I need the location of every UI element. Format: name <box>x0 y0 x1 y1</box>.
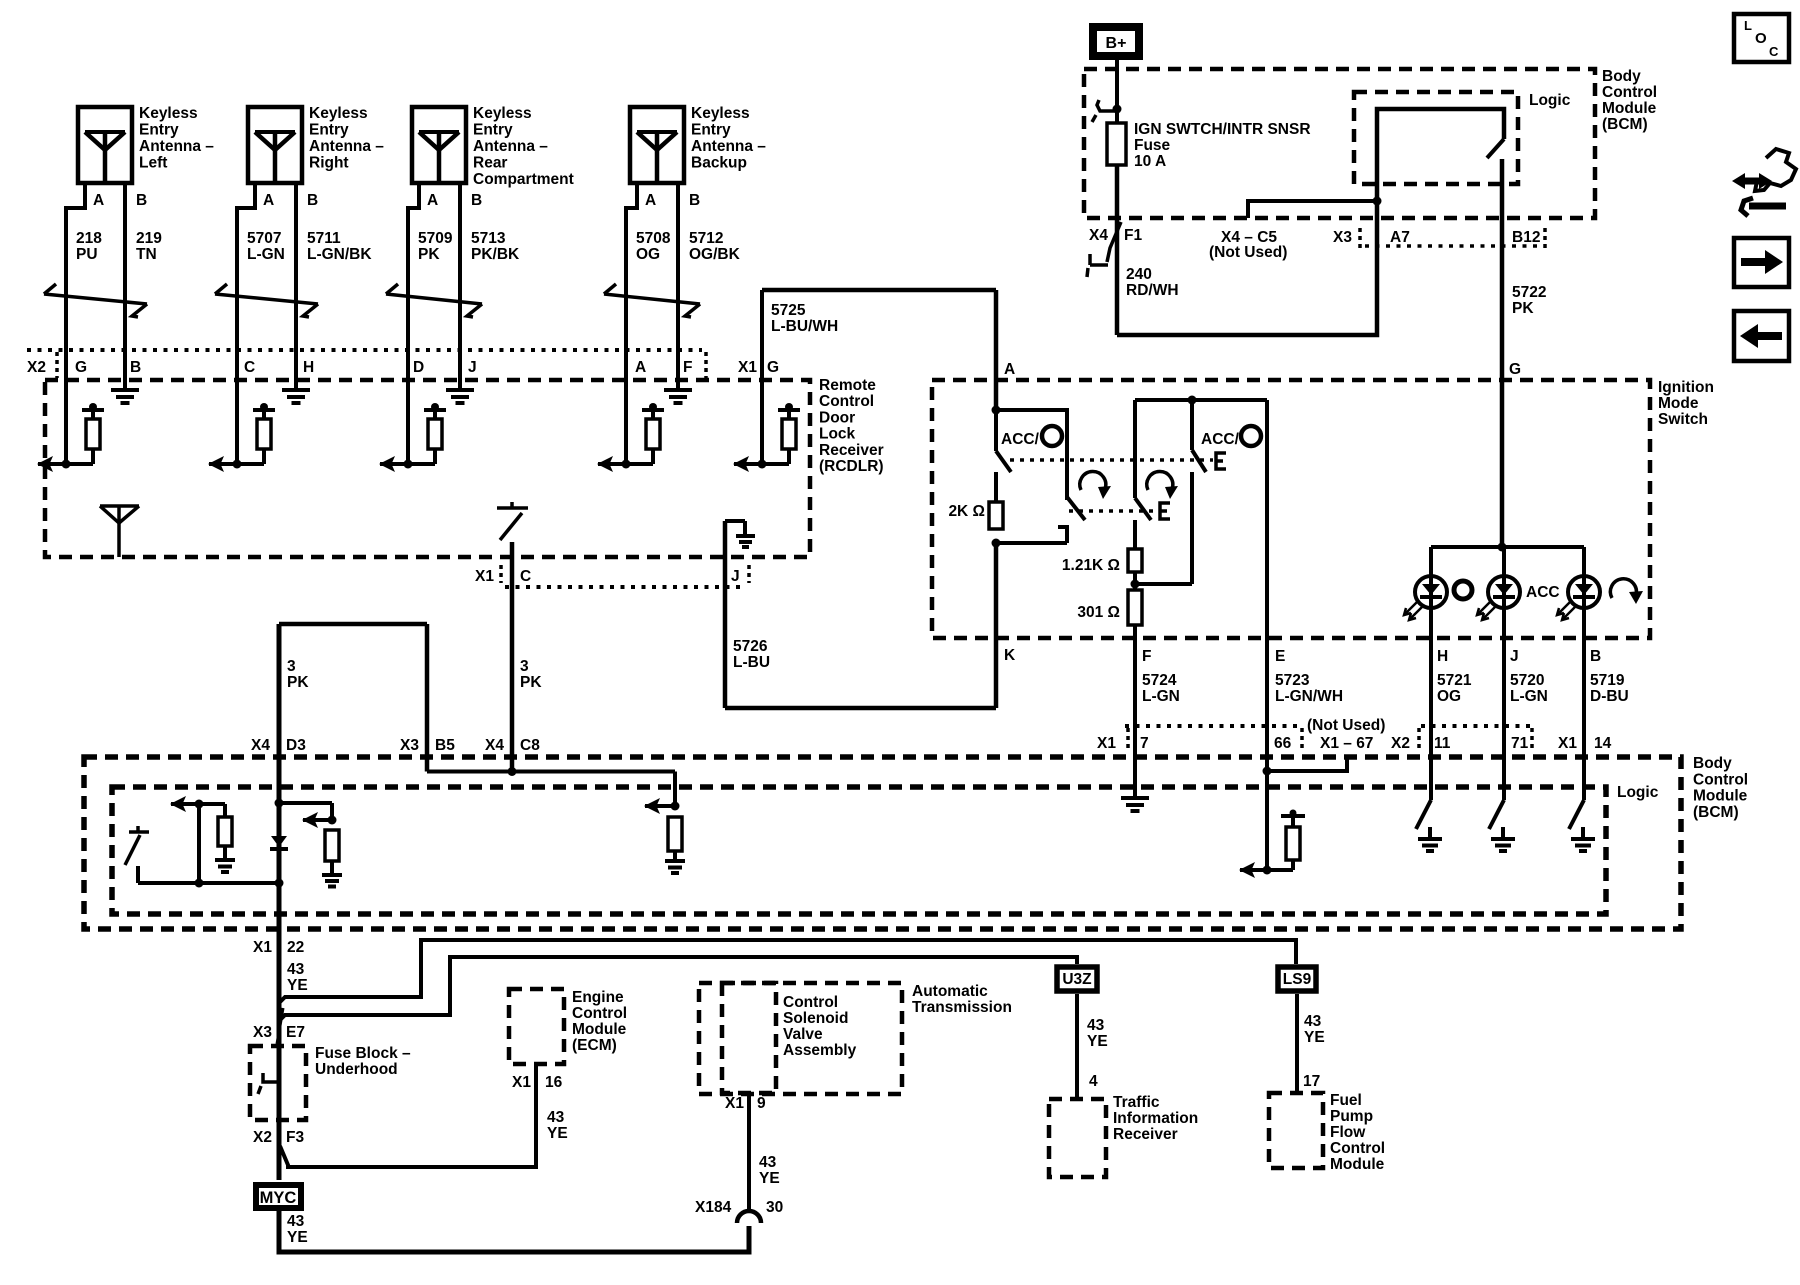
svg-text:H: H <box>303 359 314 376</box>
svg-text:H: H <box>1437 648 1448 665</box>
svg-text:(ECM): (ECM) <box>572 1037 617 1054</box>
svg-text:Module: Module <box>1330 1156 1385 1173</box>
svg-text:X3: X3 <box>400 737 419 754</box>
svg-text:X1 – 67: X1 – 67 <box>1320 735 1373 752</box>
svg-text:10 A: 10 A <box>1134 153 1166 170</box>
svg-text:(Not Used): (Not Used) <box>1307 717 1385 734</box>
svg-text:A: A <box>1004 361 1015 378</box>
svg-text:Ignition: Ignition <box>1658 379 1714 396</box>
svg-text:3: 3 <box>520 658 529 675</box>
svg-text:Underhood: Underhood <box>315 1061 398 1078</box>
svg-text:U3Z: U3Z <box>1062 971 1092 988</box>
svg-text:17: 17 <box>1303 1073 1320 1090</box>
svg-text:Logic: Logic <box>1529 92 1571 109</box>
svg-text:C: C <box>244 359 255 376</box>
svg-text:MYC: MYC <box>260 1189 297 1207</box>
svg-text:PK: PK <box>287 674 309 691</box>
svg-text:ACC/: ACC/ <box>1001 431 1040 448</box>
svg-text:J: J <box>731 568 740 585</box>
svg-text:X1: X1 <box>253 939 272 956</box>
svg-text:B12: B12 <box>1512 229 1540 246</box>
svg-text:X4: X4 <box>1089 227 1108 244</box>
svg-text:2K Ω: 2K Ω <box>948 503 985 520</box>
svg-text:Entry: Entry <box>473 122 513 139</box>
svg-text:E: E <box>1275 648 1285 665</box>
svg-text:X4: X4 <box>251 737 270 754</box>
svg-text:A: A <box>427 192 438 209</box>
svg-text:43: 43 <box>759 1154 777 1171</box>
svg-text:ACC/: ACC/ <box>1201 431 1240 448</box>
svg-text:Control: Control <box>783 994 838 1011</box>
svg-text:YE: YE <box>547 1125 568 1142</box>
svg-text:Remote: Remote <box>819 377 876 394</box>
svg-text:9: 9 <box>757 1095 766 1112</box>
svg-text:Entry: Entry <box>309 122 349 139</box>
svg-text:Keyless: Keyless <box>139 105 198 122</box>
svg-text:D3: D3 <box>286 737 306 754</box>
svg-text:Fuse: Fuse <box>1134 137 1171 154</box>
svg-text:A: A <box>263 192 274 209</box>
svg-text:X3: X3 <box>1333 229 1352 246</box>
svg-text:4: 4 <box>1089 1073 1098 1090</box>
svg-text:Receiver: Receiver <box>1113 1126 1178 1143</box>
svg-text:5713: 5713 <box>471 230 506 247</box>
svg-text:X3: X3 <box>253 1024 272 1041</box>
svg-text:X2: X2 <box>253 1129 272 1146</box>
svg-text:43: 43 <box>547 1109 565 1126</box>
svg-text:C: C <box>520 568 531 585</box>
svg-text:PK: PK <box>418 246 440 263</box>
svg-text:(Not Used): (Not Used) <box>1209 244 1287 261</box>
svg-text:TN: TN <box>136 246 157 263</box>
svg-text:L-GN: L-GN <box>247 246 285 263</box>
svg-text:G: G <box>75 359 87 376</box>
svg-text:L-BU: L-BU <box>733 654 770 671</box>
svg-text:YE: YE <box>1087 1033 1108 1050</box>
svg-text:30: 30 <box>766 1199 783 1216</box>
svg-text:Module: Module <box>572 1021 627 1038</box>
svg-text:5712: 5712 <box>689 230 723 247</box>
svg-text:PK/BK: PK/BK <box>471 246 520 263</box>
svg-text:OG: OG <box>1437 688 1461 705</box>
svg-text:22: 22 <box>287 939 304 956</box>
svg-text:Control: Control <box>572 1005 627 1022</box>
svg-text:L-GN/BK: L-GN/BK <box>307 246 372 263</box>
svg-text:C: C <box>1769 44 1779 59</box>
svg-text:ACC: ACC <box>1526 584 1560 601</box>
svg-text:Receiver: Receiver <box>819 442 884 459</box>
svg-text:43: 43 <box>1304 1013 1322 1030</box>
svg-text:X1: X1 <box>1097 735 1116 752</box>
svg-text:Module: Module <box>1693 788 1748 805</box>
svg-text:43: 43 <box>1087 1017 1105 1034</box>
svg-text:5721: 5721 <box>1437 672 1472 689</box>
svg-text:Control: Control <box>1693 771 1748 788</box>
svg-text:G: G <box>1509 361 1521 378</box>
svg-text:J: J <box>468 359 477 376</box>
svg-text:Keyless: Keyless <box>309 105 368 122</box>
svg-text:B: B <box>1590 648 1601 665</box>
svg-text:301 Ω: 301 Ω <box>1077 604 1120 621</box>
svg-text:B+: B+ <box>1106 35 1127 52</box>
svg-text:5708: 5708 <box>636 230 671 247</box>
svg-text:Right: Right <box>309 155 349 172</box>
svg-text:F1: F1 <box>1124 227 1142 244</box>
svg-text:(BCM): (BCM) <box>1693 804 1739 821</box>
svg-text:X2: X2 <box>27 359 46 376</box>
svg-text:X1: X1 <box>738 359 757 376</box>
svg-text:Solenoid: Solenoid <box>783 1010 848 1027</box>
svg-text:X1: X1 <box>725 1095 744 1112</box>
svg-text:5723: 5723 <box>1275 672 1310 689</box>
svg-text:L-BU/WH: L-BU/WH <box>771 318 838 335</box>
svg-text:Antenna –: Antenna – <box>309 138 384 155</box>
svg-text:YE: YE <box>287 977 308 994</box>
svg-text:7: 7 <box>1140 735 1149 752</box>
svg-text:5722: 5722 <box>1512 284 1546 301</box>
svg-text:Keyless: Keyless <box>473 105 532 122</box>
svg-text:Compartment: Compartment <box>473 171 574 188</box>
svg-text:X1: X1 <box>475 568 494 585</box>
svg-text:L-GN: L-GN <box>1142 688 1180 705</box>
svg-text:K: K <box>1004 647 1016 664</box>
svg-text:Body: Body <box>1602 68 1641 85</box>
svg-text:F: F <box>1142 648 1151 665</box>
svg-text:YE: YE <box>287 1229 308 1246</box>
svg-text:Pump: Pump <box>1330 1108 1373 1125</box>
svg-text:X4: X4 <box>485 737 504 754</box>
svg-text:E7: E7 <box>286 1024 305 1041</box>
svg-text:D: D <box>413 359 424 376</box>
svg-text:43: 43 <box>287 961 305 978</box>
svg-text:F: F <box>683 359 692 376</box>
svg-text:240: 240 <box>1126 266 1152 283</box>
svg-text:Engine: Engine <box>572 989 624 1006</box>
svg-text:5726: 5726 <box>733 638 768 655</box>
svg-text:X2: X2 <box>1391 735 1410 752</box>
svg-text:Control: Control <box>1602 84 1657 101</box>
svg-text:YE: YE <box>759 1170 780 1187</box>
svg-text:Transmission: Transmission <box>912 999 1012 1016</box>
svg-text:Lock: Lock <box>819 426 856 443</box>
svg-text:218: 218 <box>76 230 102 247</box>
svg-text:OG/BK: OG/BK <box>689 246 741 263</box>
svg-text:B: B <box>307 192 318 209</box>
svg-text:B: B <box>130 359 141 376</box>
svg-text:Traffic: Traffic <box>1113 1094 1160 1111</box>
svg-text:14: 14 <box>1594 735 1612 752</box>
svg-text:Antenna –: Antenna – <box>691 138 766 155</box>
svg-text:O: O <box>1755 30 1767 47</box>
svg-text:YE: YE <box>1304 1029 1325 1046</box>
svg-text:Entry: Entry <box>139 122 179 139</box>
svg-text:B: B <box>689 192 700 209</box>
svg-text:Logic: Logic <box>1617 784 1659 801</box>
svg-text:Keyless: Keyless <box>691 105 750 122</box>
svg-text:Fuel: Fuel <box>1330 1092 1362 1109</box>
svg-text:Mode: Mode <box>1658 395 1699 412</box>
svg-text:LS9: LS9 <box>1283 971 1312 988</box>
svg-text:J: J <box>1510 648 1519 665</box>
svg-text:RD/WH: RD/WH <box>1126 282 1179 299</box>
svg-text:Antenna –: Antenna – <box>473 138 548 155</box>
svg-text:5709: 5709 <box>418 230 453 247</box>
svg-text:Assembly: Assembly <box>783 1042 857 1059</box>
svg-text:Control: Control <box>819 393 874 410</box>
svg-text:B5: B5 <box>435 737 455 754</box>
svg-text:43: 43 <box>287 1213 305 1230</box>
svg-text:A7: A7 <box>1390 229 1410 246</box>
svg-text:5711: 5711 <box>307 230 341 247</box>
svg-text:Rear: Rear <box>473 155 507 172</box>
svg-text:C8: C8 <box>520 737 540 754</box>
svg-text:IGN SWTCH/INTR SNSR: IGN SWTCH/INTR SNSR <box>1134 121 1311 138</box>
svg-text:X1: X1 <box>1558 735 1577 752</box>
svg-text:5724: 5724 <box>1142 672 1177 689</box>
svg-text:Antenna –: Antenna – <box>139 138 214 155</box>
svg-text:PU: PU <box>76 246 98 263</box>
svg-text:5725: 5725 <box>771 302 806 319</box>
svg-text:X1: X1 <box>512 1074 531 1091</box>
svg-text:Module: Module <box>1602 100 1657 117</box>
svg-text:G: G <box>767 359 779 376</box>
svg-text:Control: Control <box>1330 1140 1385 1157</box>
svg-text:Flow: Flow <box>1330 1124 1366 1141</box>
svg-text:3: 3 <box>287 658 296 675</box>
svg-text:Information: Information <box>1113 1110 1198 1127</box>
svg-text:PK: PK <box>1512 300 1534 317</box>
svg-text:5707: 5707 <box>247 230 281 247</box>
svg-text:11: 11 <box>1434 735 1451 752</box>
svg-text:Automatic: Automatic <box>912 983 988 1000</box>
svg-text:(RCDLR): (RCDLR) <box>819 458 884 475</box>
svg-text:L-GN/WH: L-GN/WH <box>1275 688 1343 705</box>
svg-text:X184: X184 <box>695 1199 732 1216</box>
svg-text:A: A <box>645 192 656 209</box>
svg-text:(BCM): (BCM) <box>1602 116 1648 133</box>
svg-text:Door: Door <box>819 409 855 426</box>
svg-text:Valve: Valve <box>783 1026 823 1043</box>
svg-text:5720: 5720 <box>1510 672 1544 689</box>
svg-text:F3: F3 <box>286 1129 304 1146</box>
svg-text:219: 219 <box>136 230 162 247</box>
svg-text:L-GN: L-GN <box>1510 688 1548 705</box>
svg-text:Left: Left <box>139 155 167 172</box>
svg-text:71: 71 <box>1511 735 1529 752</box>
svg-text:OG: OG <box>636 246 660 263</box>
svg-text:1.21K Ω: 1.21K Ω <box>1062 557 1120 574</box>
svg-text:Backup: Backup <box>691 155 747 172</box>
svg-text:66: 66 <box>1274 735 1292 752</box>
svg-text:D-BU: D-BU <box>1590 688 1629 705</box>
svg-text:A: A <box>635 359 646 376</box>
svg-text:A: A <box>93 192 104 209</box>
svg-text:Body: Body <box>1693 755 1732 772</box>
svg-text:B: B <box>471 192 482 209</box>
svg-text:Entry: Entry <box>691 122 731 139</box>
svg-text:16: 16 <box>545 1074 563 1091</box>
svg-text:Switch: Switch <box>1658 411 1708 428</box>
svg-text:Fuse Block –: Fuse Block – <box>315 1045 411 1062</box>
svg-text:L: L <box>1744 18 1752 33</box>
svg-text:5719: 5719 <box>1590 672 1625 689</box>
svg-text:B: B <box>136 192 147 209</box>
svg-text:PK: PK <box>520 674 542 691</box>
